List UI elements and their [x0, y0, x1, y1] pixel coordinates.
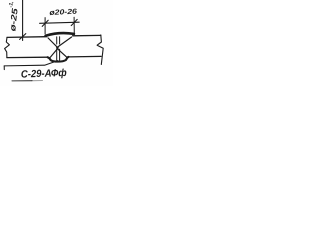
svg-text:ø20-26: ø20-26: [49, 7, 78, 17]
svg-text:С-29-АФф: С-29-АФф: [21, 67, 67, 81]
svg-text:-1,: -1,: [8, 1, 15, 8]
svg-text:ø-25: ø-25: [8, 7, 19, 31]
